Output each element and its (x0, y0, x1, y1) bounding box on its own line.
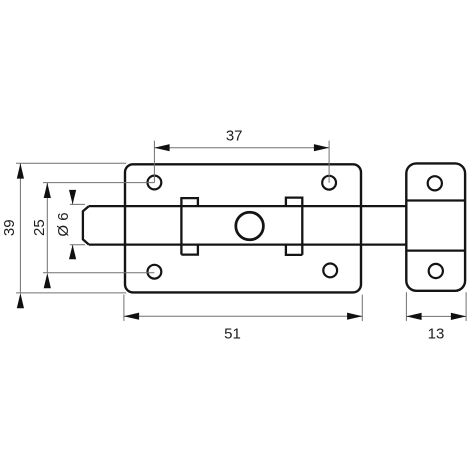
svg-text:25: 25 (31, 219, 48, 236)
extension lines below plate (124, 295, 362, 321)
dimension line 51 (124, 315, 362, 317)
keeper screw hole top (428, 176, 442, 190)
svg-text:51: 51 (224, 325, 241, 342)
dimension line stubs (72, 190, 74, 259)
arrowhead left (154, 144, 169, 151)
right staple guide (286, 198, 302, 255)
arrowhead top (44, 183, 51, 198)
screw hole top-right (322, 176, 336, 190)
dimension 51 (plate width, bottom) (124, 295, 363, 343)
svg-text:13: 13 (428, 325, 445, 342)
screw hole bottom-right (323, 264, 337, 278)
extension lines from plate top and bottom (16, 163, 126, 293)
arrowhead bottom (pointing up) (69, 245, 76, 259)
screw hole top-left (148, 176, 162, 190)
keeper plate (strike) (406, 163, 465, 290)
arrowhead bottom (44, 273, 51, 288)
extension lines through top holes (154, 141, 329, 183)
arrowhead top (17, 163, 24, 178)
svg-text:Ø 6: Ø 6 (55, 212, 72, 236)
arrowhead left (406, 313, 421, 320)
dimension line 13 (406, 315, 466, 317)
arrowhead right (451, 313, 466, 320)
svg-text:39: 39 (1, 219, 18, 236)
dimension line 25 (46, 183, 48, 273)
dimension 39 (plate height, far left) (1, 163, 126, 308)
arrowhead right (347, 313, 362, 320)
keeper bridge lines (406, 201, 465, 251)
arrowhead bottom (17, 293, 24, 308)
dimension 37 (hole spacing, top) (154, 128, 329, 183)
dimension line 39 (19, 163, 21, 293)
dimension 25 (hole spacing, left) (31, 183, 154, 289)
knob (round operating button on bolt) (236, 212, 264, 240)
dimension 13 (keeper width, bottom right) (406, 292, 466, 342)
dimension diameter 6 (bolt rod diameter) (55, 190, 85, 259)
main mounting plate (125, 164, 361, 292)
extension lines through left holes (43, 183, 154, 273)
arrowhead top (pointing down) (69, 190, 76, 204)
keeper screw hole bottom (429, 264, 443, 278)
screw hole bottom-left (148, 265, 162, 279)
bolt rod (sliding bolt shaft with chamfered left end) (83, 206, 406, 245)
svg-text:37: 37 (226, 128, 243, 145)
dimension line 37 (154, 147, 329, 149)
arrowhead left (124, 313, 139, 320)
left staple guide (181, 198, 198, 255)
extension lines at rod edges (70, 204, 85, 244)
arrowhead right (314, 144, 329, 151)
extension lines below keeper (406, 292, 466, 321)
